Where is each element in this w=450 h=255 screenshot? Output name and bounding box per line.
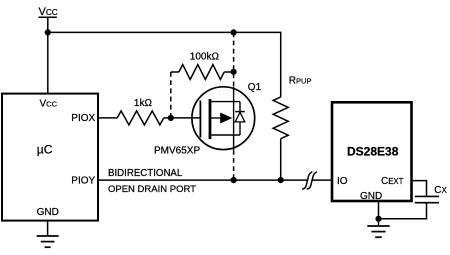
wire top VCC rail	[48, 32, 281, 97]
body diode triangle	[235, 112, 245, 122]
node gate junction	[168, 115, 174, 121]
wire break symbol (squiggle)	[303, 172, 317, 189]
wire CEXT to Cx	[412, 181, 427, 196]
Q1 channel bar	[209, 99, 212, 139]
wire uC GND pin	[47, 221, 49, 236]
node VCC rail left	[45, 29, 51, 35]
resistor 100k leads	[171, 71, 179, 73]
uC box	[2, 94, 98, 221]
wire dashed VCC to Q1 source	[233, 32, 235, 86]
ground symbol (uC)	[37, 236, 59, 247]
resistor R 1k zigzag	[117, 111, 164, 125]
svg-text:OPEN DRAIN PORT: OPEN DRAIN PORT	[108, 184, 196, 195]
svg-text:DS28E38: DS28E38	[347, 144, 399, 158]
wire Cx to GND node	[379, 203, 427, 218]
svg-text:1kΩ: 1kΩ	[134, 98, 153, 109]
node 100k right end	[231, 69, 237, 75]
svg-text:RPUP: RPUP	[289, 76, 312, 87]
capacitor Cx bottom plate	[415, 202, 439, 204]
node VCC rail / Q1 source branch	[231, 29, 237, 35]
wire 1k to gate of Q1	[164, 117, 201, 119]
node junction dots	[45, 29, 382, 222]
Q1 envelope circle	[192, 87, 255, 150]
svg-text:IO: IO	[337, 176, 348, 187]
Q1 gate bar	[199, 101, 201, 138]
Q1 body arrow	[220, 113, 232, 124]
wire dashed Q1 drain to IO line	[233, 150, 235, 180]
Q1 terminal vertical	[233, 87, 235, 150]
ground symbol (DS28E38)	[367, 226, 389, 237]
svg-text:VCC: VCC	[40, 98, 58, 109]
svg-text:PMV65XP: PMV65XP	[154, 145, 200, 156]
node Q1 drain on IO line	[231, 177, 237, 183]
svg-text:GND: GND	[37, 207, 59, 218]
svg-text:VCC: VCC	[39, 6, 58, 18]
svg-text:PIOX: PIOX	[71, 113, 95, 124]
svg-text:CX: CX	[434, 185, 447, 196]
Q1 body stub	[211, 117, 221, 119]
transistor Q1	[192, 87, 255, 150]
resistor 100k zigzag	[179, 65, 224, 80]
svg-text:100kΩ: 100kΩ	[190, 52, 220, 63]
svg-text:µC: µC	[37, 143, 53, 157]
capacitor Cx top plate	[415, 195, 439, 197]
wire dashed 100k left leg	[170, 72, 172, 118]
svg-text:GND: GND	[360, 191, 382, 202]
svg-text:CEXT: CEXT	[381, 176, 404, 187]
body diode connection bottom	[239, 122, 241, 135]
svg-text:Q1: Q1	[248, 82, 262, 93]
Q1 source stub	[211, 101, 240, 103]
resistor RPUP zigzag	[273, 97, 288, 139]
body diode connection top	[239, 102, 241, 112]
wire RPUP to IO line	[280, 139, 282, 180]
wire bidirectional open drain port line	[98, 179, 308, 181]
DS28E38 box	[332, 102, 412, 201]
svg-text:BIDIRECTIONAL: BIDIRECTIONAL	[108, 168, 183, 179]
power symbol VCC bar	[39, 16, 57, 18]
wire PIOX to 1k	[98, 117, 117, 119]
Q1 drain stub	[211, 134, 240, 136]
node RPUP on IO line	[278, 177, 284, 183]
node GND junction DS28E38	[375, 216, 381, 222]
svg-text:PIOY: PIOY	[71, 175, 95, 186]
wire DS28E38 GND pin	[378, 201, 380, 226]
body diode cathode bar	[235, 111, 245, 113]
wire VCC vertical to uC	[47, 17, 49, 93]
